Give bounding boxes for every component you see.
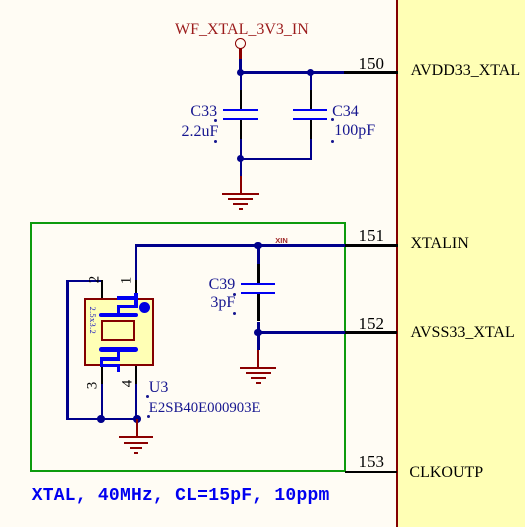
- ground G2 stem red: [136, 419, 138, 436]
- pin name XTALIN: [411, 236, 469, 252]
- wire top rail: [240, 71, 345, 73]
- capacitor C39 bottom plate: [241, 292, 275, 294]
- wire power stem blue: [239, 59, 241, 73]
- power port WF_XTAL_3V3_IN label: [175, 22, 306, 38]
- capacitor C34 bottom plate: [293, 118, 328, 120]
- label C34 anchor dot: [331, 118, 334, 121]
- crystal pin 4 stub: [135, 366, 137, 384]
- pin name AVSS33_XTAL: [411, 325, 515, 341]
- crystal bottom step vertical left: [100, 359, 104, 366]
- label 100pF anchor dot: [331, 140, 334, 143]
- capacitor C39 bottom pin: [257, 294, 259, 322]
- label U3 anchor dot: [146, 395, 149, 398]
- crystal pin 3 stub: [101, 366, 103, 384]
- ground G1 bar 2: [228, 198, 253, 200]
- capacitor C34 bottom pin: [310, 120, 312, 138]
- capacitor C39 top pin: [257, 264, 259, 283]
- crystal top-edge stub: [117, 296, 137, 300]
- ground G2 bar 4: [134, 452, 139, 454]
- capacitor C33 bottom plate: [223, 118, 258, 120]
- crystal pin 1 stub: [135, 280, 137, 293]
- crystal top step horizontal: [117, 305, 138, 309]
- label U3 (designator): [149, 380, 169, 396]
- IC body (right block, pins 150-153, clipped): [396, 0, 525, 527]
- wire XIN horizontal: [135, 244, 345, 246]
- capacitor C39 top plate: [241, 283, 275, 285]
- pin number 4: [120, 380, 135, 388]
- pin 152 stub: [345, 331, 397, 333]
- crystal size text 2.5x3.2: [88, 304, 97, 337]
- crystal bottom-edge stub: [100, 364, 120, 368]
- ground G3 bar 3: [251, 377, 266, 379]
- ground G1 bar 3: [233, 203, 248, 205]
- label 2.2uF (value): [182, 124, 219, 140]
- pin number 153: [339, 453, 384, 470]
- wire C39 bottom: [257, 322, 259, 333]
- node junction top-left: [237, 69, 245, 77]
- crystal top step vertical right: [134, 298, 138, 307]
- crystal bottom step vertical right: [117, 350, 121, 359]
- capacitor C33 bottom pin: [240, 120, 242, 138]
- wire left vertical: [66, 280, 68, 420]
- crystal bottom electrode bar: [99, 347, 138, 352]
- capacitor C34 top pin: [310, 90, 312, 109]
- wire C39 top: [257, 245, 259, 264]
- crystal U3 body: [84, 298, 154, 366]
- wire C33 top: [240, 72, 242, 90]
- label C39 anchor dot: [233, 293, 236, 296]
- ground G1 bar 4: [239, 208, 244, 210]
- capacitor C34 top plate: [293, 109, 328, 111]
- crystal inner rect: [101, 320, 135, 341]
- label C39 (designator): [209, 277, 236, 293]
- power port stem (red): [239, 48, 241, 59]
- pin number 2: [87, 275, 102, 283]
- ground G3 bar 2: [246, 372, 271, 374]
- ground G1 bar 1: [222, 193, 259, 195]
- ground G2 bar 2: [124, 442, 147, 444]
- crystal bottom step horizontal: [100, 357, 121, 361]
- capacitor C33 top plate: [223, 109, 258, 111]
- label C34 (designator): [332, 104, 359, 120]
- label C33 (designator): [190, 104, 217, 120]
- pin number 152: [339, 315, 384, 332]
- node junction pin4 bottom: [133, 415, 141, 423]
- label E2SB40E000903E anchor dot: [147, 415, 150, 418]
- wire crystal pin1 vertical: [135, 244, 137, 280]
- ground G2 bar 3: [130, 447, 142, 449]
- label 2.2uF anchor dot: [214, 140, 217, 143]
- green box XTAL: [30, 222, 346, 472]
- ground G2 bar 1: [119, 436, 153, 438]
- crystal top electrode bar: [99, 313, 138, 318]
- node XIN junction: [254, 242, 262, 250]
- pin 150 stub: [344, 71, 397, 73]
- pin name CLKOUTP: [409, 465, 483, 481]
- ground G1 stem red: [240, 176, 242, 193]
- label C33 anchor dot: [214, 119, 217, 122]
- wire pin2 horizontal top: [66, 280, 102, 282]
- pin number 151: [339, 227, 384, 244]
- pin number 150: [339, 55, 384, 72]
- wire C33 bottom: [240, 139, 242, 159]
- crystal below-body stub: [117, 366, 121, 373]
- wire bottom rail C33-C34: [240, 158, 312, 160]
- crystal pin1 blue entry: [134, 293, 137, 298]
- pin number 1: [119, 276, 134, 284]
- wire pin3 down: [101, 384, 103, 419]
- wire gnd stem blue: [240, 159, 242, 177]
- label 3pF (value): [210, 295, 235, 311]
- wire bottom horizontal: [66, 418, 137, 420]
- wire C34 top: [310, 72, 312, 90]
- node junction C39 bottom: [254, 329, 262, 337]
- pin name AVDD33_XTAL: [411, 63, 521, 79]
- label E2SB40E000903E (part number): [149, 400, 261, 416]
- power port circle: [235, 38, 246, 49]
- label 3pF anchor dot: [233, 312, 236, 315]
- node junction top-right: [307, 69, 315, 77]
- pin 153 stub: [345, 471, 397, 473]
- crystal pin1 marker dot: [139, 302, 150, 313]
- node junction C33 bottom: [237, 155, 245, 163]
- label XIN: [275, 237, 288, 245]
- pin number 3: [86, 381, 101, 389]
- ground G3 stem blue: [257, 332, 259, 350]
- ground G3 bar 4: [256, 382, 261, 384]
- wire C34 bottom: [310, 139, 312, 160]
- capacitor C33 top pin: [240, 90, 242, 109]
- wire pin4 down: [135, 384, 137, 419]
- crystal top step vertical left: [117, 306, 121, 315]
- annotation XTAL, 40MHz, CL=15pF, 10ppm: [32, 487, 330, 505]
- ground G3 stem red: [257, 350, 259, 367]
- node junction pin3 bottom: [97, 415, 105, 423]
- pin 151 stub: [345, 244, 398, 246]
- crystal pin 2 stub: [101, 280, 103, 298]
- label 100pF (value): [334, 123, 375, 139]
- wire pin152 horizontal: [257, 331, 345, 333]
- ground G3 bar 1: [240, 367, 277, 369]
